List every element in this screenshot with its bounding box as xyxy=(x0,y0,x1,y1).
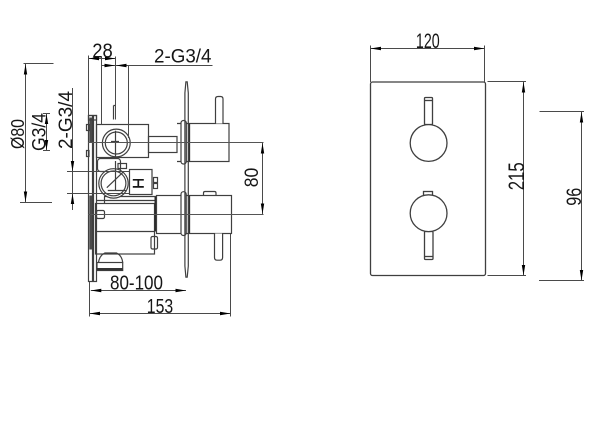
ext line bottom right xyxy=(230,234,232,317)
wall plate screw tab lower xyxy=(87,151,90,157)
knob front face line upper xyxy=(188,124,190,162)
lower boss band xyxy=(97,197,157,204)
centerline row1 xyxy=(88,142,264,144)
ext line port center xyxy=(115,57,117,120)
knob2 lever cap line xyxy=(425,256,434,258)
dia80 arrow bottom xyxy=(24,192,27,203)
ext 96 bottom xyxy=(539,280,584,282)
knob1 front lever xyxy=(425,98,433,125)
lower block right heavy edge xyxy=(155,197,157,232)
H box connector tab 1 xyxy=(154,178,158,183)
arrow 96 bottom xyxy=(580,270,583,281)
dim 80 right line xyxy=(262,143,264,215)
arrow 80-100 right xyxy=(176,289,187,292)
svg-text:Ø80: Ø80 xyxy=(7,119,28,149)
knob1 side body xyxy=(189,124,229,162)
wall plate back strip xyxy=(89,116,93,282)
knob1 rear edges xyxy=(177,124,189,162)
arrow 80-100 left xyxy=(91,289,102,292)
leader arrow left xyxy=(105,64,116,67)
knob2 top tab xyxy=(204,192,217,196)
svg-text:96: 96 xyxy=(563,188,586,206)
dim 153 line xyxy=(90,313,231,315)
centerline row2 xyxy=(88,214,264,216)
ext 215 top xyxy=(488,81,527,83)
left ext line lower xyxy=(67,193,130,195)
knob1 front circle xyxy=(410,125,447,162)
knob2 front circle xyxy=(410,195,447,232)
dim 80-100 line xyxy=(91,290,186,292)
connecting tube xyxy=(149,137,178,153)
leader arrow right xyxy=(116,64,127,67)
leader 2-G3/4 xyxy=(102,65,213,67)
arrow 120 left xyxy=(371,47,382,50)
neck step xyxy=(118,164,127,169)
svg-text:2-G3/4: 2-G3/4 xyxy=(55,91,77,149)
ext 120 right xyxy=(484,46,486,83)
svg-text:215: 215 xyxy=(504,162,529,190)
collar escutcheon upper xyxy=(181,121,186,165)
lower block inner line xyxy=(96,231,155,233)
G3/4 dim line xyxy=(46,114,48,151)
2-G3/4 left dim line xyxy=(72,88,74,210)
ext 120 left xyxy=(370,46,372,83)
dia80 arrow top xyxy=(24,64,27,75)
knob2 lever pipe down xyxy=(215,234,223,261)
svg-text:120: 120 xyxy=(416,30,440,53)
dim 96 line xyxy=(581,112,583,281)
H box connector tab 2 xyxy=(154,184,158,189)
circle2 diagonal xyxy=(107,172,124,188)
ext 215 bottom xyxy=(488,275,527,277)
svg-text:80-100: 80-100 xyxy=(110,271,163,294)
circle1 axis line xyxy=(111,131,119,157)
arrow 80 top xyxy=(261,143,264,154)
lower main block xyxy=(96,204,155,255)
2-G3/4 arrow upper xyxy=(71,161,74,172)
wall plate top cap xyxy=(89,116,97,121)
arrow 28 right xyxy=(105,57,116,60)
G3/4 end ticks xyxy=(43,114,50,151)
svg-text:2-G3/4: 2-G3/4 xyxy=(154,46,212,68)
bottom foot plate xyxy=(97,263,123,271)
arrow 80 bottom xyxy=(261,204,264,215)
port circle2 inner xyxy=(101,171,126,196)
wall plate screw tab upper xyxy=(87,125,90,131)
bottom foot dark band xyxy=(97,268,123,270)
knob1 lever cap line xyxy=(425,100,433,102)
ext line mid xyxy=(101,57,103,125)
svg-text:G3/4: G3/4 xyxy=(29,113,50,151)
ext line bottom left xyxy=(89,282,91,317)
dim 120 line xyxy=(371,48,485,50)
arrow 153 left xyxy=(90,312,101,315)
svg-text:28: 28 xyxy=(92,40,113,62)
H port box xyxy=(130,170,153,195)
G3/4 arrow top xyxy=(45,114,48,124)
dia80 dim line xyxy=(25,64,27,203)
H label xyxy=(133,180,144,187)
stem pipe above circle1 xyxy=(114,106,116,120)
arrow 96 top xyxy=(580,112,583,123)
upper body box xyxy=(97,125,149,158)
collar escutcheon lower xyxy=(181,192,186,236)
wall plate front strip xyxy=(94,116,97,282)
knob2 side body xyxy=(157,196,232,234)
arrow 215 top xyxy=(522,82,525,93)
port circle2 outer xyxy=(99,169,128,198)
arrow 120 right xyxy=(474,47,485,50)
left ext line upper xyxy=(67,171,130,173)
leader drop line xyxy=(128,66,130,139)
trim plate front view xyxy=(371,82,486,276)
wall plate dark segment upper xyxy=(89,118,92,143)
ext 96 top xyxy=(540,111,585,113)
knob2 top notch xyxy=(424,192,433,196)
tile plane plate xyxy=(185,82,188,277)
dim 215 line xyxy=(523,82,525,276)
arrow 215 bottom xyxy=(522,265,525,276)
tab below block xyxy=(151,237,158,250)
svg-text:153: 153 xyxy=(147,295,173,318)
knob front face line lower xyxy=(188,196,190,234)
dia80 top ext xyxy=(24,63,54,65)
arrow 153 right xyxy=(220,312,231,315)
port circle1 outer xyxy=(102,129,130,157)
dia80 bottom ext xyxy=(20,202,52,204)
ext line 28 left xyxy=(88,56,90,116)
circle2 inner chords xyxy=(108,161,126,191)
wall plate dark segment lower xyxy=(89,196,92,250)
knob1 lever pipe up xyxy=(216,97,224,124)
2-G3/4 arrow lower xyxy=(71,194,74,205)
bracket tab on plate xyxy=(97,211,105,219)
knob2 front lever xyxy=(425,232,434,260)
dim 28 line xyxy=(89,58,116,60)
bottom dome xyxy=(99,253,123,263)
G3/4 arrow bottom xyxy=(45,140,48,150)
neck between ports xyxy=(98,159,121,172)
port circle1 inner xyxy=(105,132,127,154)
arrow 28 left xyxy=(89,57,100,60)
svg-text:80: 80 xyxy=(242,168,263,188)
